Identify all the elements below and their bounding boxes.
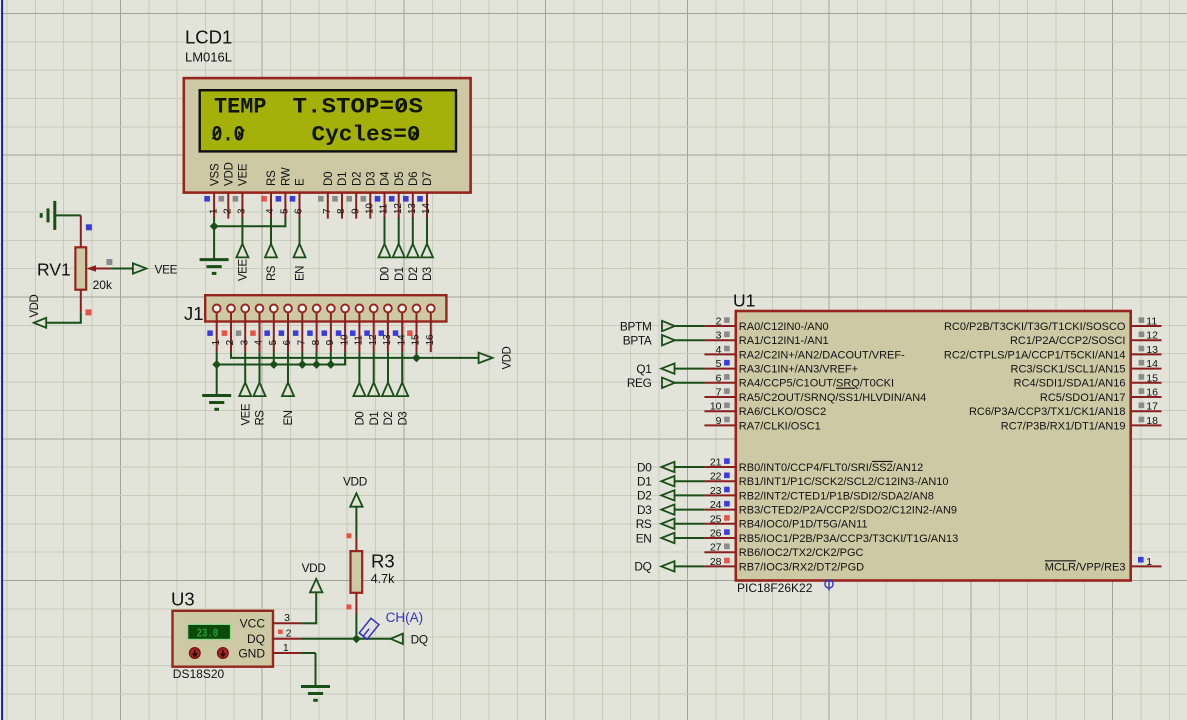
svg-text:D2: D2 (383, 412, 395, 426)
terminal D3 (661, 504, 674, 514)
svg-text:D1: D1 (369, 412, 381, 426)
svg-text:RB2/INT2/CTED1/P1B/SDI2/SDA2/A: RB2/INT2/CTED1/P1B/SDI2/SDA2/AN8 (739, 490, 934, 502)
svg-text:RA1/C12IN1-/AN1: RA1/C12IN1-/AN1 (739, 335, 829, 347)
wire LCD pin13 to D2 terminal (412, 218, 414, 244)
svg-text:RC0/P2B/T3CKI/T3G/T1CKI/SOSCO: RC0/P2B/T3CKI/T3G/T1CKI/SOSCO (944, 321, 1126, 333)
svg-text:T.STOP=0S: T.STOP=0S (293, 94, 424, 120)
wire LCD pin11 to D0 terminal (384, 218, 386, 244)
svg-text:15: 15 (411, 334, 422, 345)
svg-text:10: 10 (710, 401, 722, 413)
voltage probe CH(A) (359, 618, 379, 639)
svg-text:Cycles=0: Cycles=0 (312, 122, 421, 148)
svg-text:24: 24 (710, 499, 722, 511)
wire DQ terminal to U1 (675, 565, 705, 567)
J1 pin stubs (217, 308, 431, 352)
transistor U3 DS18S20 temperature sensor (171, 589, 273, 682)
svg-text:27: 27 (710, 542, 722, 554)
U1 port A pin labels (739, 321, 926, 432)
svg-text:BPTA: BPTA (623, 334, 652, 348)
svg-text:RA6/CLKO/OSC2: RA6/CLKO/OSC2 (739, 406, 826, 418)
svg-text:18: 18 (1146, 415, 1158, 427)
svg-text:5: 5 (280, 208, 291, 214)
svg-text:D2: D2 (408, 267, 420, 281)
terminal D2 (LCD) (407, 244, 419, 258)
svg-text:RA5/C2OUT/SRNQ/SS1/HLVDIN/AN4: RA5/C2OUT/SRNQ/SS1/HLVDIN/AN4 (739, 392, 926, 404)
svg-text:9: 9 (325, 339, 336, 345)
terminal Q1 (661, 363, 674, 373)
svg-text:D0: D0 (323, 172, 335, 186)
svg-text:14: 14 (421, 203, 432, 214)
svg-text:RB0/INT0/CCP4/FLT0/SRI/SS2/AN1: RB0/INT0/CCP4/FLT0/SRI/SS2/AN12 (739, 462, 923, 474)
svg-text:2: 2 (225, 339, 236, 345)
wire J1 to VEE terminal (244, 352, 246, 382)
U1 port C pin labels (944, 321, 1126, 432)
svg-text:VEE: VEE (238, 163, 250, 186)
svg-text:Q1: Q1 (636, 362, 651, 376)
svg-text:RS: RS (636, 517, 652, 531)
wire RV1 wiper to VEE terminal (110, 268, 133, 270)
junction LCD pin1 (210, 222, 219, 231)
svg-text:RA2/C2IN+/AN2/DACOUT/VREF-: RA2/C2IN+/AN2/DACOUT/VREF- (739, 349, 905, 361)
connector J1 (184, 295, 446, 324)
svg-text:RV1: RV1 (37, 260, 71, 280)
wire VDD to R3 (355, 507, 357, 539)
svg-text:3: 3 (237, 208, 248, 214)
svg-text:D3: D3 (397, 412, 409, 426)
svg-text:E: E (295, 178, 307, 186)
svg-text:J1: J1 (184, 303, 204, 324)
svg-text:D0: D0 (355, 412, 367, 426)
wire ground to RV1 top (55, 214, 81, 216)
wire J1 pin9 (330, 352, 332, 364)
svg-text:16: 16 (1146, 387, 1158, 399)
wire Q1 terminal to U1 (675, 368, 705, 370)
J1 pin numbers 1-16 (211, 334, 436, 345)
svg-text:RA7/CLKI/OSC1: RA7/CLKI/OSC1 (739, 420, 821, 432)
svg-text:U1: U1 (733, 291, 755, 311)
wire J1 to D1 terminal (373, 352, 375, 382)
LCD1 pin squares (204, 196, 423, 202)
ground J1 (202, 394, 231, 397)
J1 pin squares (207, 330, 412, 336)
junction J1 pin8 (312, 360, 321, 369)
terminal RS (LCD) (265, 244, 277, 258)
svg-text:4: 4 (254, 339, 265, 345)
svg-text:R3: R3 (371, 551, 395, 572)
wire U3 VCC to VDD (301, 622, 316, 624)
svg-text:DQ: DQ (634, 560, 651, 574)
terminal D1 (LCD) (393, 244, 405, 258)
potentiometer RV1 20k (37, 215, 113, 312)
svg-text:6: 6 (716, 372, 722, 384)
svg-text:RB5/IOC1/P2B/P3A/CCP3/T3CKI/T1: RB5/IOC1/P2B/P3A/CCP3/T3CKI/T1G/AN13 (739, 533, 958, 545)
svg-text:D4: D4 (380, 171, 392, 186)
terminal DQ (661, 561, 674, 571)
svg-text:RB1/INT1/P1C/SCK2/SCL2/C12IN3-: RB1/INT1/P1C/SCK2/SCL2/C12IN3-/AN10 (739, 476, 949, 488)
wire D3 terminal to U1 (675, 509, 705, 511)
terminal D0 (J1) (353, 383, 365, 397)
svg-text:21: 21 (710, 457, 722, 469)
U1 pin 1 number (1138, 557, 1144, 563)
ground (RV1 top, rotated left) (53, 201, 56, 230)
svg-text:14: 14 (1146, 358, 1158, 370)
svg-text:1: 1 (208, 208, 219, 214)
svg-text:VDD: VDD (224, 162, 236, 186)
terminal D3 (J1) (396, 383, 408, 397)
svg-text:20k: 20k (93, 278, 113, 292)
svg-text:6: 6 (282, 339, 293, 345)
U1 port B pin labels (739, 462, 958, 573)
svg-text:14: 14 (396, 334, 407, 345)
svg-text:D7: D7 (422, 172, 434, 186)
svg-text:25: 25 (710, 513, 722, 525)
RV1 squares (86, 224, 92, 230)
svg-text:D1: D1 (637, 475, 651, 489)
svg-text:1: 1 (283, 642, 289, 654)
wire J1 to RS terminal (259, 352, 261, 382)
wire U3 DQ to node (301, 638, 357, 640)
svg-text:26: 26 (710, 528, 722, 540)
svg-text:RA3/C1IN+/AN3/VREF+: RA3/C1IN+/AN3/VREF+ (739, 364, 858, 376)
wire U3 GND to ground (301, 652, 316, 654)
terminal EN (661, 533, 674, 543)
svg-text:D1: D1 (337, 172, 349, 186)
svg-text:3: 3 (284, 612, 290, 624)
resistor R3 4.7k (351, 539, 396, 614)
svg-text:RC5/SDO1/AN17: RC5/SDO1/AN17 (1040, 392, 1126, 404)
terminal VDD (J1) (479, 353, 493, 363)
LCD1 screen text line 1 (212, 94, 424, 148)
wire J1 pin1 to ground (216, 352, 218, 395)
terminal RS (J1) (254, 383, 266, 397)
svg-text:RB6/IOC2/TX2/CK2/PGC: RB6/IOC2/TX2/CK2/PGC (739, 547, 864, 559)
svg-text:23: 23 (710, 485, 722, 497)
svg-text:2: 2 (716, 316, 722, 328)
svg-text:D3: D3 (637, 503, 652, 517)
svg-text:BPTM: BPTM (620, 319, 652, 333)
U1 origin marker (825, 580, 833, 588)
terminal D0 (661, 462, 674, 472)
wire J1 to D0 terminal (358, 352, 360, 382)
terminal EN (J1) (282, 383, 294, 397)
svg-text:D0: D0 (380, 267, 392, 281)
svg-text:4: 4 (265, 208, 276, 214)
svg-text:RC6/P3A/CCP3/TX1/CK1/AN18: RC6/P3A/CCP3/TX1/CK1/AN18 (969, 406, 1126, 418)
svg-text:RC2/CTPLS/P1A/CCP1/T5CKI/AN14: RC2/CTPLS/P1A/CCP1/T5CKI/AN14 (944, 349, 1126, 361)
svg-text:4: 4 (716, 344, 722, 356)
svg-text:DQ: DQ (247, 632, 265, 646)
svg-text:7: 7 (716, 387, 722, 399)
LCD LCD1 LM016L (184, 27, 471, 193)
wire J1 to EN terminal (287, 352, 289, 382)
slashed zeros (398, 102, 405, 112)
wire J1 pin7 (301, 352, 303, 364)
svg-text:8: 8 (336, 208, 347, 214)
terminal RS (661, 519, 674, 529)
svg-text:D0: D0 (637, 460, 652, 474)
svg-text:8: 8 (311, 339, 322, 345)
svg-text:28: 28 (710, 556, 722, 568)
svg-text:4.7k: 4.7k (371, 572, 395, 586)
svg-text:D2: D2 (637, 489, 651, 503)
svg-text:VDD: VDD (343, 475, 367, 489)
svg-text:EN: EN (283, 410, 295, 425)
svg-text:7: 7 (322, 208, 333, 214)
svg-text:23.0: 23.0 (197, 628, 219, 641)
svg-text:VDD: VDD (502, 347, 514, 370)
LCD1 pin stubs (214, 193, 427, 219)
wire J1 pin10 (344, 352, 346, 364)
terminal VEE (J1) (239, 383, 251, 397)
svg-text:PIC18F26K22: PIC18F26K22 (737, 581, 813, 595)
svg-text:DQ: DQ (411, 632, 428, 646)
U1 right pin numbers 11-18 (1139, 316, 1159, 427)
svg-text:RC1/P2A/CCP2/SOSCI: RC1/P2A/CCP2/SOSCI (1010, 335, 1126, 347)
svg-text:VDD: VDD (302, 561, 326, 575)
svg-text:13: 13 (407, 203, 418, 214)
junction J1 pin7 (298, 360, 307, 369)
wire LCD pin3 to VEE terminal (241, 218, 243, 244)
wire J1 VDD net (upper line) pin2 to VDD terminal (230, 352, 232, 358)
wire BPTA terminal to U1 (675, 339, 705, 341)
svg-text:9: 9 (350, 208, 361, 214)
U1 left pin numbers (710, 316, 730, 568)
terminal D3 (LCD) (421, 244, 433, 258)
wire LCD pin12 to D1 terminal (398, 218, 400, 244)
svg-text:EN: EN (636, 531, 652, 545)
svg-text:GND: GND (238, 646, 265, 660)
svg-text:D6: D6 (408, 172, 420, 186)
wire D0 terminal to U1 (675, 466, 705, 468)
wire R3 bottom to DQ node (355, 614, 357, 639)
wire J1 pin5 (273, 352, 275, 364)
wire J1 pin8 (316, 352, 318, 364)
svg-text:11: 11 (379, 203, 390, 214)
terminal D0 (LCD) (379, 244, 391, 258)
svg-text:12: 12 (393, 203, 404, 214)
R3 squares (346, 533, 351, 538)
wire J1 to D3 terminal (401, 352, 403, 382)
svg-text:15: 15 (1146, 372, 1158, 384)
terminal D2 (661, 490, 674, 500)
svg-text:D2: D2 (351, 172, 363, 186)
svg-text:RC4/SDI1/SDA1/AN16: RC4/SDI1/SDA1/AN16 (1014, 378, 1126, 390)
svg-text:2: 2 (223, 208, 234, 214)
svg-text:RB3/CTED2/P2A/CCP2/SDO2/C12IN2: RB3/CTED2/P2A/CCP2/SDO2/C12IN2-/AN9 (739, 505, 957, 517)
terminal D2 (J1) (382, 383, 394, 397)
svg-text:11: 11 (1146, 316, 1157, 328)
wire RV1 bottom to VDD terminal (80, 312, 82, 323)
svg-text:EN: EN (295, 266, 307, 281)
svg-text:10: 10 (339, 334, 350, 345)
wire BPTM terminal to U1 (675, 325, 705, 327)
svg-text:VSS: VSS (209, 163, 221, 186)
svg-text:1: 1 (1146, 556, 1152, 568)
terminal EN (LCD) (294, 244, 306, 258)
svg-text:RC7/P3B/RX1/DT1/AN19: RC7/P3B/RX1/DT1/AN19 (1001, 420, 1126, 432)
wire RS terminal to U1 (675, 523, 705, 525)
wire J1 pin15 (416, 352, 418, 358)
U1 left pin stubs (704, 326, 735, 566)
svg-text:12: 12 (368, 334, 379, 345)
svg-text:TEMP: TEMP (214, 94, 267, 120)
svg-text:11: 11 (354, 335, 365, 346)
wire EN terminal to U1 (675, 537, 705, 539)
svg-text:1: 1 (211, 339, 222, 345)
svg-text:6: 6 (294, 208, 305, 214)
terminal VEE (RV1) (133, 263, 147, 273)
svg-text:LM016L: LM016L (185, 50, 232, 65)
LCD1 pin numbers 1-14 (208, 203, 432, 214)
svg-text:VCC: VCC (240, 617, 266, 631)
svg-text:RS: RS (266, 265, 278, 281)
terminal D1 (661, 476, 674, 486)
terminal REG (662, 378, 675, 388)
wire LCD pin4 to RS terminal (270, 218, 272, 244)
wire LCD gnd net pin1 to pin5 RW (214, 225, 285, 227)
svg-text:22: 22 (710, 471, 722, 483)
svg-text:RB4/IOC0/P1D/T5G/AN11: RB4/IOC0/P1D/T5G/AN11 (739, 519, 868, 531)
svg-text:DS18S20: DS18S20 (173, 667, 225, 681)
svg-text:RA4/CCP5/C1OUT/SRQ/T0CKI: RA4/CCP5/C1OUT/SRQ/T0CKI (739, 378, 894, 390)
svg-text:3: 3 (239, 339, 250, 345)
wire node to DQ terminal (356, 638, 390, 640)
svg-text:3: 3 (716, 330, 722, 342)
svg-text:D3: D3 (422, 267, 434, 281)
wire REG terminal to U1 (675, 382, 705, 384)
svg-text:VEE: VEE (155, 262, 178, 276)
svg-text:RS: RS (255, 410, 267, 426)
terminal VDD (RV1) (34, 318, 46, 328)
junction J1 pin9 (326, 360, 335, 369)
wire LCD VSS pin1 to ground (213, 218, 215, 260)
svg-text:9: 9 (716, 415, 722, 427)
junction J1 pin15 (412, 354, 421, 363)
svg-text:7: 7 (297, 339, 308, 345)
terminal DQ (node) (391, 634, 403, 644)
svg-text:12: 12 (1146, 330, 1158, 342)
svg-text:MCLR/VPP/RE3: MCLR/VPP/RE3 (1045, 561, 1126, 573)
terminal VEE (LCD) (236, 244, 248, 258)
svg-text:RB7/IOC3/RX2/DT2/PGD: RB7/IOC3/RX2/DT2/PGD (739, 561, 864, 573)
U3 pin stubs (273, 622, 301, 624)
ground U3 (301, 685, 330, 688)
junction J1 pin1 (212, 360, 221, 369)
svg-text:VEE: VEE (238, 259, 250, 281)
svg-text:5: 5 (268, 339, 279, 345)
junction J1 pin5 (269, 360, 278, 369)
wire J1 ground net pins 1-10 (lower line) (217, 364, 345, 366)
svg-text:10: 10 (365, 203, 376, 214)
ground LCD (200, 258, 229, 261)
svg-text:17: 17 (1146, 401, 1158, 413)
svg-text:VEE: VEE (240, 403, 252, 425)
svg-text:D3: D3 (366, 172, 378, 186)
wire D2 terminal to U1 (675, 494, 705, 496)
svg-text:U3: U3 (171, 589, 195, 610)
wire LCD pin6 to EN terminal (299, 218, 301, 244)
svg-text:13: 13 (382, 334, 393, 345)
svg-text:RS: RS (266, 170, 278, 186)
svg-text:CH(A): CH(A) (386, 610, 424, 625)
wire D1 terminal to U1 (675, 480, 705, 482)
svg-text:VDD: VDD (29, 295, 41, 318)
svg-text:RW: RW (281, 167, 293, 186)
svg-text:RA0/C12IN0-/AN0: RA0/C12IN0-/AN0 (739, 321, 829, 333)
svg-text:16: 16 (425, 334, 436, 345)
svg-text:D1: D1 (394, 267, 406, 281)
svg-text:D5: D5 (394, 172, 406, 186)
svg-text:2: 2 (286, 628, 292, 640)
wire J1 to D2 terminal (387, 352, 389, 382)
svg-text:LCD1: LCD1 (185, 27, 232, 48)
terminal BPTM (662, 321, 675, 331)
wire LCD pin14 to D3 terminal (426, 218, 428, 244)
junction node DQ (352, 634, 361, 643)
U1 right pin stubs (1131, 326, 1162, 566)
svg-text:13: 13 (1146, 344, 1158, 356)
J1 pin circles (213, 305, 435, 313)
terminal D1 (J1) (368, 383, 380, 397)
svg-text:5: 5 (716, 358, 722, 370)
terminal BPTA (662, 335, 675, 345)
svg-text:RC3/SCK1/SCL1/AN15: RC3/SCK1/SCL1/AN15 (1011, 364, 1126, 376)
op-amp U1 PIC18F26K22 microcontroller body (733, 291, 1131, 596)
svg-text:REG: REG (627, 376, 652, 390)
